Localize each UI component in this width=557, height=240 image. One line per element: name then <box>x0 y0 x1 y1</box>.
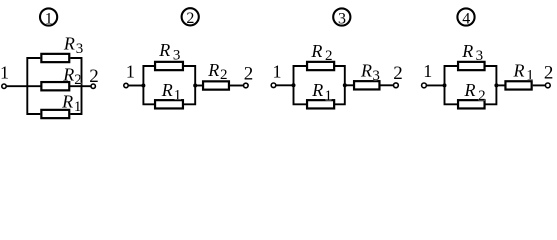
right bus wire (ckt3) <box>334 66 345 104</box>
svg-text:2: 2 <box>220 67 228 83</box>
resistor R1 box (ckt2) <box>155 100 183 108</box>
svg-text:R: R <box>513 60 525 80</box>
resistor R3 box (ckt4) <box>458 62 485 70</box>
svg-text:R: R <box>161 80 173 100</box>
junction dot left bus (ckt4) <box>443 83 447 87</box>
resistor R2 box (ckt4) <box>458 100 485 108</box>
svg-text:1: 1 <box>325 88 333 104</box>
terminal 1 node circle (ckt2) <box>124 83 128 87</box>
svg-text:R: R <box>158 40 170 60</box>
junction dot right bus (ckt2) <box>193 84 197 88</box>
svg-text:3: 3 <box>372 68 380 84</box>
svg-text:4: 4 <box>462 10 470 27</box>
svg-text:2: 2 <box>325 48 333 64</box>
junction dot left bus (ckt2) <box>141 84 145 88</box>
resistor R2 box (ckt2) <box>203 81 229 89</box>
right bus wire (ckt4) <box>485 66 497 104</box>
svg-text:2: 2 <box>244 63 254 84</box>
resistor R2 box (ckt1) <box>41 82 69 90</box>
resistor R1 box (ckt3) <box>307 100 334 108</box>
svg-text:R: R <box>311 80 323 100</box>
junction dot right bus (ckt3) <box>343 83 347 87</box>
wire R3 to terminal 2 (ckt3) <box>381 84 394 86</box>
terminal 2 node circle (ckt1) <box>91 84 95 88</box>
svg-text:1: 1 <box>273 61 282 81</box>
wire right bus to R1 (ckt4) <box>496 84 505 86</box>
svg-text:3: 3 <box>476 48 484 64</box>
svg-text:R: R <box>207 60 219 80</box>
svg-text:1: 1 <box>126 62 135 82</box>
right bus wire (ckt2) <box>183 66 195 104</box>
left bus wire (ckt2) <box>143 66 155 104</box>
wire R2 to terminal 2 (ckt1) <box>69 85 91 87</box>
circled label 1 <box>40 8 57 25</box>
svg-text:R: R <box>461 41 473 61</box>
svg-text:R: R <box>310 41 322 61</box>
resistor R1 box (ckt4) <box>505 81 531 89</box>
svg-text:1: 1 <box>45 10 53 27</box>
svg-text:1: 1 <box>0 63 9 83</box>
svg-text:2: 2 <box>74 72 82 88</box>
right bus wire (ckt1) <box>70 58 81 114</box>
wire right bus to R2 (ckt2) <box>195 85 203 87</box>
resistor R1 box (ckt1) <box>41 110 69 118</box>
svg-text:2: 2 <box>186 10 194 27</box>
svg-text:3: 3 <box>338 10 346 27</box>
left bus wire (ckt4) <box>445 66 459 104</box>
svg-text:2: 2 <box>544 63 554 84</box>
svg-text:1: 1 <box>174 87 182 103</box>
left bus wire (ckt3) <box>294 66 308 104</box>
junction dot right bus (ckt4) <box>494 83 498 87</box>
terminal 1 node circle (ckt3) <box>271 83 276 88</box>
circled label 2 <box>182 8 199 25</box>
terminal 2 node circle (ckt4) <box>545 83 550 88</box>
resistor R3 box (ckt3) <box>354 81 379 89</box>
wire R1 to terminal 2 (ckt4) <box>533 84 546 86</box>
wire R2 to terminal 2 (ckt2) <box>230 85 244 87</box>
wire terminal1 to R2 (ckt1) <box>6 85 41 87</box>
circled label 4 <box>457 8 474 25</box>
terminal 2 node circle (ckt2) <box>244 83 249 88</box>
svg-text:2: 2 <box>393 63 403 84</box>
svg-text:3: 3 <box>76 41 84 57</box>
svg-text:1: 1 <box>423 61 432 81</box>
svg-text:R: R <box>62 65 74 85</box>
svg-text:R: R <box>61 92 73 112</box>
svg-text:1: 1 <box>526 68 534 84</box>
wire terminal1 to left bus (ckt3) <box>276 84 294 86</box>
svg-text:1: 1 <box>74 99 82 115</box>
resistor R2 box (ckt3) <box>307 62 334 70</box>
wire right bus to R3 (ckt3) <box>345 84 354 86</box>
wire terminal1 to left bus (ckt4) <box>427 84 445 86</box>
wire terminal1 to left bus (ckt2) <box>128 85 143 87</box>
svg-text:R: R <box>63 34 75 54</box>
terminal 1 node circle (ckt1) <box>2 84 6 88</box>
resistor R3 box (ckt2) <box>155 62 183 70</box>
terminal 2 node circle (ckt3) <box>394 83 399 88</box>
junction dot left bus (ckt3) <box>292 83 296 87</box>
svg-text:R: R <box>464 80 476 100</box>
circled label 3 <box>333 8 350 25</box>
svg-text:3: 3 <box>173 47 181 63</box>
svg-text:2: 2 <box>478 88 486 104</box>
left bus wire (ckt1) <box>27 58 40 114</box>
terminal 1 node circle (ckt4) <box>422 83 427 88</box>
resistor R3 box (ckt1) <box>41 54 69 62</box>
svg-text:R: R <box>360 61 372 81</box>
